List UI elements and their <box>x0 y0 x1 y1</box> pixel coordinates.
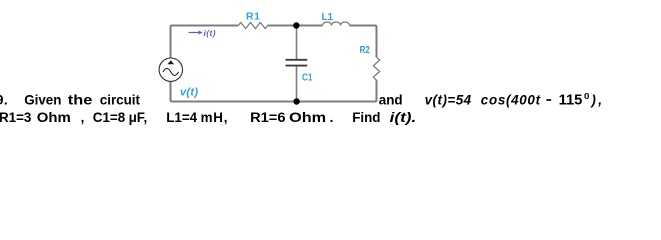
wire capacitor branch top <box>296 26 298 60</box>
svg-text:L1: L1 <box>322 11 334 23</box>
svg-text:,: , <box>597 93 602 108</box>
svg-text:L1=4: L1=4 <box>166 110 197 125</box>
wire top-right segment <box>350 26 377 58</box>
svg-text:cos(400t: cos(400t <box>481 93 541 108</box>
capacitor C1 <box>286 60 308 66</box>
svg-text:Ohm: Ohm <box>289 110 326 125</box>
svg-text:the: the <box>68 93 93 108</box>
problem text line 2 <box>0 110 416 125</box>
svg-text:Given: Given <box>24 93 61 108</box>
svg-text:Ohm: Ohm <box>37 110 71 125</box>
svg-text:C1: C1 <box>302 73 313 84</box>
wire right-bottom and bottom segment <box>171 80 377 101</box>
problem text line 1 <box>0 92 602 108</box>
svg-text:i(t): i(t) <box>204 28 216 38</box>
svg-text:μF,: μF, <box>129 110 148 125</box>
svg-text:9.: 9. <box>0 93 8 108</box>
svg-text:,: , <box>81 110 85 125</box>
node A (top junction dot) <box>293 22 299 28</box>
resistor R1 <box>238 22 267 28</box>
node B (bottom junction dot) <box>293 98 299 104</box>
svg-text:v(t)=54: v(t)=54 <box>425 93 472 108</box>
wire capacitor branch bottom <box>296 66 298 102</box>
wire top middle segment <box>268 25 323 27</box>
svg-text:C1=8: C1=8 <box>93 110 126 125</box>
svg-text:R1=6: R1=6 <box>250 110 285 125</box>
svg-text:.: . <box>330 110 334 125</box>
svg-text:Find: Find <box>352 110 380 125</box>
svg-text:i(t).: i(t). <box>390 110 417 125</box>
resistor R2 <box>373 57 379 80</box>
svg-text:R1: R1 <box>246 10 260 22</box>
svg-text:v(t): v(t) <box>180 87 198 99</box>
svg-text:0: 0 <box>584 92 590 101</box>
source V1 (ac voltage source) <box>159 58 182 81</box>
current arrow i(t) <box>189 31 203 35</box>
inductor L1 <box>323 22 350 25</box>
svg-text:115: 115 <box>559 93 583 109</box>
svg-text:circuit: circuit <box>100 93 141 108</box>
svg-text:R1=3: R1=3 <box>0 110 31 125</box>
svg-text:and: and <box>379 93 403 108</box>
svg-text:R2: R2 <box>360 45 371 56</box>
wire top-left segment <box>171 26 239 59</box>
svg-text:): ) <box>589 93 596 108</box>
svg-text:mH,: mH, <box>201 110 229 125</box>
